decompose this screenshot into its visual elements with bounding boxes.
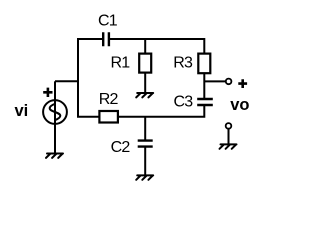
wire output stub: [204, 80, 225, 82]
svg-text:C2: C2: [111, 139, 131, 156]
resistor R2: [99, 111, 118, 123]
svg-text:vo: vo: [230, 96, 249, 114]
plus sign at vo: [238, 79, 247, 88]
wire vo- to ground: [228, 129, 230, 144]
wire vi top lead: [55, 80, 78, 82]
svg-text:R1: R1: [111, 55, 131, 72]
resistor R1: [139, 54, 151, 73]
capacitor C1: [103, 32, 109, 46]
terminal vo+: [226, 79, 232, 85]
wire top-left corner, left vertical, bottom rail left: [78, 39, 103, 117]
terminal vo-: [226, 123, 232, 129]
plus sign at vi: [43, 88, 52, 97]
wire top rail right + down to R3: [109, 39, 204, 54]
ground under C2: [136, 175, 153, 179]
wire vi vertical through source: [54, 81, 56, 153]
ground under R1: [136, 93, 153, 97]
svg-text:R2: R2: [99, 91, 119, 108]
capacitor C3: [197, 99, 213, 105]
wire C2 bottom lead: [144, 147, 146, 176]
resistor R3: [198, 54, 210, 74]
svg-text:C1: C1: [98, 13, 118, 30]
wire R1 bottom lead: [144, 73, 146, 93]
source vi circle: [43, 100, 67, 124]
wire R1 top lead: [144, 39, 146, 54]
ground under vo-: [220, 144, 237, 148]
capacitor C2: [138, 141, 153, 147]
svg-text:R3: R3: [173, 55, 193, 72]
sine wave inside source: [50, 104, 61, 120]
ground under vi: [46, 154, 63, 158]
svg-text:vi: vi: [15, 102, 29, 120]
wire R3 bottom to C3 top: [203, 73, 205, 99]
wire C3 bottom to rail and rail right part: [118, 105, 204, 117]
svg-text:C3: C3: [174, 94, 194, 111]
wire C2 branch: [144, 117, 146, 141]
